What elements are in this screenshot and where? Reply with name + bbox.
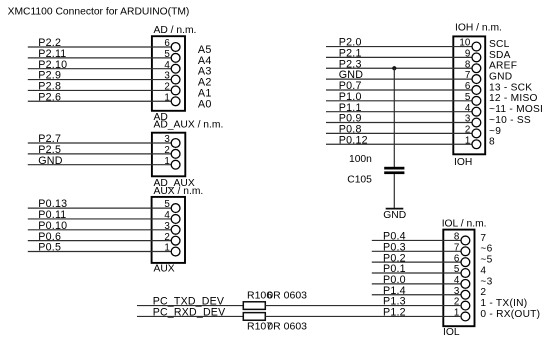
svg-text:AD_AUX / n.m.: AD_AUX / n.m. bbox=[154, 119, 224, 130]
wire net P2.10 to AD pin 4 bbox=[28, 68, 171, 70]
wire net P2.7 to AD_AUX pin 3 bbox=[28, 142, 171, 144]
svg-text:0R 0603: 0R 0603 bbox=[267, 289, 307, 301]
svg-text:AREF: AREF bbox=[489, 61, 517, 72]
svg-text:8: 8 bbox=[454, 232, 460, 243]
IOL pin 1 circle bbox=[461, 312, 470, 321]
AD pin 5 circle bbox=[171, 53, 180, 62]
resistor R106 bbox=[243, 302, 265, 310]
svg-text:AUX: AUX bbox=[154, 264, 175, 275]
AUX pin 4 circle bbox=[171, 215, 180, 224]
svg-text:9: 9 bbox=[465, 49, 470, 60]
svg-text:5: 5 bbox=[164, 199, 170, 210]
IOH pin 6 circle bbox=[472, 86, 481, 95]
AD_AUX pin 2 circle bbox=[171, 149, 180, 158]
IOH pin 10 circle bbox=[472, 42, 481, 51]
svg-text:5: 5 bbox=[164, 49, 170, 60]
wire net P0.11 to AUX pin 4 bbox=[28, 218, 171, 220]
AUX pin 5 circle bbox=[171, 204, 180, 213]
wire net P1.4 to IOL pin 3 bbox=[372, 294, 461, 296]
connector IOL body bbox=[443, 230, 474, 327]
svg-text:5: 5 bbox=[465, 92, 471, 103]
svg-text:SDA: SDA bbox=[489, 50, 511, 61]
connector IOH body bbox=[453, 36, 485, 154]
svg-text:4: 4 bbox=[164, 210, 170, 221]
svg-text:2: 2 bbox=[164, 82, 169, 93]
svg-text:4: 4 bbox=[480, 265, 486, 276]
IOH pin 2 circle bbox=[472, 129, 481, 138]
svg-text:PC_RXD_DEV: PC_RXD_DEV bbox=[153, 307, 226, 319]
svg-text:~9: ~9 bbox=[489, 126, 501, 137]
AD_AUX pin 1 circle bbox=[171, 160, 180, 169]
wire net P0.13 to AUX pin 5 bbox=[28, 207, 171, 209]
svg-text:6: 6 bbox=[164, 38, 170, 49]
IOL pin 3 circle bbox=[461, 290, 470, 299]
wire net P2.6 to AD pin 1 bbox=[28, 100, 171, 102]
svg-text:IOL / n.m.: IOL / n.m. bbox=[442, 219, 487, 230]
svg-text:P0.12: P0.12 bbox=[339, 134, 368, 146]
svg-text:~11 - MOSI: ~11 - MOSI bbox=[489, 104, 543, 115]
svg-text:1: 1 bbox=[465, 135, 470, 146]
svg-text:1: 1 bbox=[164, 156, 169, 167]
wire net P0.10 to AUX pin 3 bbox=[28, 229, 171, 231]
svg-text:2: 2 bbox=[480, 287, 486, 298]
svg-text:0R 0603: 0R 0603 bbox=[267, 320, 307, 332]
IOL pin 7 circle bbox=[461, 247, 470, 256]
IOL pin 6 circle bbox=[461, 258, 470, 267]
AD_AUX pin 3 circle bbox=[171, 139, 180, 148]
svg-text:0 - RX(OUT): 0 - RX(OUT) bbox=[480, 309, 540, 320]
svg-text:12 - MISO: 12 - MISO bbox=[489, 93, 538, 104]
wire net P2.2 to AD pin 6 bbox=[28, 46, 171, 48]
svg-text:4: 4 bbox=[454, 275, 460, 286]
wire net P0.7 to IOH pin 6 bbox=[326, 89, 472, 91]
wire net P2.0 to IOH pin 10 bbox=[326, 46, 472, 48]
IOH pin 7 circle bbox=[472, 75, 481, 84]
svg-text:~5: ~5 bbox=[480, 255, 492, 266]
wire net P0.3 to IOL pin 7 bbox=[372, 250, 461, 252]
resistor R107 bbox=[243, 313, 265, 321]
svg-text:3: 3 bbox=[164, 134, 170, 145]
svg-text:AUX / n.m.: AUX / n.m. bbox=[154, 186, 204, 197]
svg-text:AD / n.m.: AD / n.m. bbox=[154, 25, 197, 36]
capacitor C105 bbox=[384, 167, 404, 170]
svg-text:3: 3 bbox=[465, 114, 471, 125]
wire net P0.12 to IOH pin 1 bbox=[326, 143, 472, 145]
IOL pin 2 circle bbox=[461, 301, 470, 310]
connector AD_AUX body bbox=[152, 133, 185, 177]
svg-text:1: 1 bbox=[164, 92, 169, 103]
svg-text:IOH: IOH bbox=[454, 157, 472, 168]
svg-text:P0.5: P0.5 bbox=[38, 242, 61, 254]
svg-text:13 - SCK: 13 - SCK bbox=[489, 82, 532, 93]
wire from junction down to C105 bbox=[393, 68, 395, 167]
wire net P0.6 to AUX pin 2 bbox=[28, 240, 171, 242]
AD pin 2 circle bbox=[171, 86, 180, 95]
AD pin 1 circle bbox=[171, 97, 180, 106]
wire net P1.0 to IOH pin 5 bbox=[326, 100, 472, 102]
wire net P2.8 to AD pin 2 bbox=[28, 89, 171, 91]
svg-text:2: 2 bbox=[465, 124, 470, 135]
wire net GND to AD_AUX pin 1 bbox=[28, 164, 171, 166]
wire net P0.1 to IOL pin 5 bbox=[372, 272, 461, 274]
svg-text:7: 7 bbox=[465, 70, 470, 81]
IOH pin 1 circle bbox=[472, 140, 481, 149]
ground symbol GND bbox=[386, 208, 404, 210]
AUX pin 1 circle bbox=[171, 247, 180, 256]
wire net P0.5 to AUX pin 1 bbox=[28, 251, 171, 253]
IOH pin 4 circle bbox=[472, 107, 481, 116]
wire R107 to IOL pin 1 bbox=[265, 315, 461, 317]
svg-text:3: 3 bbox=[164, 221, 170, 232]
svg-text:4: 4 bbox=[164, 60, 170, 71]
svg-text:~10 - SS: ~10 - SS bbox=[489, 115, 531, 126]
svg-text:GND: GND bbox=[489, 72, 512, 83]
wire net P0.0 to IOL pin 4 bbox=[372, 283, 461, 285]
wire from C105 down to ground bbox=[393, 174, 395, 208]
wire net P2.1 to IOH pin 9 bbox=[326, 56, 472, 58]
svg-text:3: 3 bbox=[164, 71, 170, 82]
svg-text:~3: ~3 bbox=[480, 276, 492, 287]
IOH pin 9 circle bbox=[472, 53, 481, 62]
AUX pin 3 circle bbox=[171, 225, 180, 234]
wire net P2.11 to AD pin 5 bbox=[28, 57, 171, 59]
wire net P2.5 to AD_AUX pin 2 bbox=[28, 153, 171, 155]
svg-text:P2.6: P2.6 bbox=[38, 91, 61, 103]
svg-text:SCL: SCL bbox=[489, 39, 510, 50]
svg-text:GND: GND bbox=[383, 210, 406, 221]
svg-text:8: 8 bbox=[489, 137, 495, 148]
svg-text:3: 3 bbox=[454, 286, 460, 297]
AD pin 6 circle bbox=[171, 43, 180, 52]
AUX pin 2 circle bbox=[171, 236, 180, 245]
svg-text:6: 6 bbox=[454, 253, 460, 264]
wire net P2.9 to AD pin 3 bbox=[28, 79, 171, 81]
svg-text:IOH / n.m.: IOH / n.m. bbox=[455, 22, 502, 33]
svg-text:100n: 100n bbox=[349, 154, 372, 165]
junction on net P2.3 (AREF) bbox=[392, 66, 396, 70]
IOL pin 4 circle bbox=[461, 279, 470, 288]
IOH pin 3 circle bbox=[472, 118, 481, 127]
AD pin 3 circle bbox=[171, 75, 180, 84]
svg-text:2: 2 bbox=[164, 232, 169, 243]
svg-text:~6: ~6 bbox=[480, 244, 492, 255]
IOH pin 5 circle bbox=[472, 96, 481, 105]
wire net P0.8 to IOH pin 2 bbox=[326, 132, 472, 134]
svg-text:A0: A0 bbox=[198, 98, 212, 110]
wire net GND to IOH pin 7 bbox=[326, 78, 472, 80]
svg-text:7: 7 bbox=[454, 242, 459, 253]
connector AUX body bbox=[152, 197, 185, 263]
AD pin 4 circle bbox=[171, 64, 180, 73]
svg-text:XMC1100 Connector for ARDUINO(: XMC1100 Connector for ARDUINO(TM) bbox=[8, 6, 190, 17]
svg-text:7: 7 bbox=[480, 233, 486, 244]
wire net P1.1 to IOH pin 4 bbox=[326, 111, 472, 113]
wire net P0.2 to IOL pin 6 bbox=[372, 261, 461, 263]
IOL pin 5 circle bbox=[461, 269, 470, 278]
wire net P0.4 to IOL pin 8 bbox=[372, 239, 461, 241]
svg-text:6: 6 bbox=[465, 81, 471, 92]
IOL pin 8 circle bbox=[461, 236, 470, 245]
IOH pin 8 circle bbox=[472, 64, 481, 73]
wire net PC_RXD_DEV to R107 bbox=[137, 315, 243, 317]
connector AD body bbox=[152, 36, 185, 111]
svg-text:8: 8 bbox=[465, 59, 471, 70]
svg-text:1 - TX(IN): 1 - TX(IN) bbox=[480, 298, 527, 309]
svg-text:IOL: IOL bbox=[443, 327, 460, 338]
wire net P2.3 to IOH pin 8 bbox=[326, 67, 472, 69]
wire R106 to IOL pin 2 bbox=[265, 305, 461, 307]
wire net P0.9 to IOH pin 3 bbox=[326, 122, 472, 124]
svg-text:GND: GND bbox=[38, 155, 62, 167]
svg-text:5: 5 bbox=[454, 264, 460, 275]
svg-text:4: 4 bbox=[465, 103, 471, 114]
svg-text:2: 2 bbox=[164, 145, 169, 156]
svg-text:C105: C105 bbox=[347, 175, 372, 186]
wire net PC_TXD_DEV to R106 bbox=[137, 305, 243, 307]
svg-text:1: 1 bbox=[164, 243, 169, 254]
svg-text:10: 10 bbox=[459, 38, 470, 49]
